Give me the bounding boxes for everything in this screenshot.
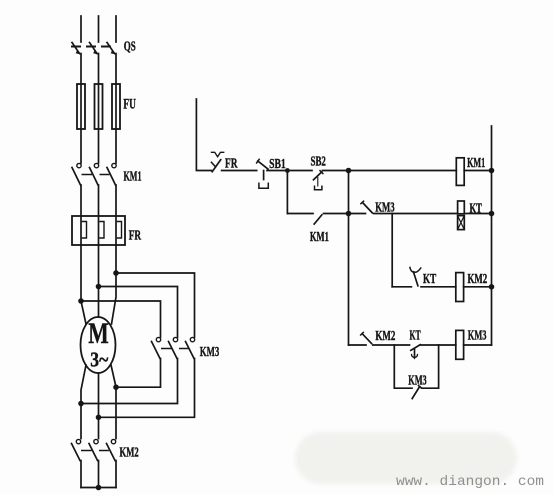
contactor KM2 pole 2	[89, 439, 98, 460]
coil KM3	[456, 330, 464, 359]
KM1 linkage dashed	[82, 174, 108, 176]
node C	[346, 211, 352, 217]
svg-text:QS: QS	[124, 39, 136, 54]
contact KT NC delayed	[411, 345, 420, 360]
fuse FU2	[95, 84, 103, 129]
svg-text:KM3: KM3	[200, 344, 220, 359]
contactor KM2 pole 1	[72, 439, 81, 460]
control supply left wire	[196, 99, 211, 171]
contactor KM3 pole 3	[186, 337, 195, 358]
bus junction	[489, 211, 495, 217]
wire to KM2 aux	[349, 344, 367, 346]
contact KM3 NC parallel	[412, 386, 421, 399]
svg-text:M: M	[88, 317, 109, 350]
wire KM1 coil to bus	[464, 170, 491, 172]
contactor KM2 pole 3	[107, 439, 116, 460]
contact KM1 aux NO	[314, 215, 322, 224]
FR heater 1	[81, 216, 87, 245]
wire KT to KM3 coil	[420, 344, 456, 346]
FR heater 3	[116, 216, 122, 245]
wire phase2 QS to KM1	[98, 54, 100, 164]
node B	[346, 168, 352, 174]
wire node V to KM3 pole2 top	[99, 287, 178, 338]
contact KM2 aux	[361, 332, 372, 343]
wire motor bottom left	[81, 365, 86, 439]
KM3 linkage dashed	[162, 348, 188, 350]
node dot	[113, 384, 119, 390]
switch QS pole 1	[72, 43, 81, 55]
QS linkage dashed	[72, 46, 113, 48]
FR heater 2	[99, 216, 105, 245]
right bus	[491, 126, 493, 345]
switch QS pole 2	[90, 43, 99, 55]
svg-text:www. diangon. com: www. diangon. com	[396, 474, 544, 490]
svg-text:3~: 3~	[90, 348, 108, 372]
branch node B to node C	[348, 171, 350, 214]
wire phase1 FR to node	[80, 245, 82, 301]
star point bus	[81, 487, 116, 489]
wire to KT contact	[392, 286, 411, 288]
svg-text:SB2: SB2	[311, 155, 326, 170]
wire phase3 FR to node	[115, 245, 117, 273]
bus junction	[489, 168, 495, 174]
wire SB2 to KM1 coil	[323, 170, 457, 172]
svg-text:FR: FR	[129, 229, 142, 244]
node dot	[78, 401, 84, 407]
svg-text:KM1: KM1	[467, 155, 485, 170]
node V	[96, 284, 102, 290]
svg-text:FR: FR	[225, 157, 238, 172]
wire phase3 QS to KM1	[115, 54, 117, 164]
contactor KM1 main pole 3	[107, 163, 116, 185]
wire node U to KM3 pole1 top	[81, 301, 161, 337]
wire KM2 aux to node D	[373, 344, 410, 346]
wire node W to motor	[112, 273, 117, 324]
contactor KM3 pole 2	[169, 337, 178, 358]
bus junction	[489, 284, 495, 290]
wire parallel branch up	[422, 345, 439, 388]
wire FR to SB1	[222, 170, 257, 172]
coil KM2	[456, 273, 464, 302]
contactor KM1 main pole 1	[72, 163, 81, 185]
wire SB1 to node A	[267, 170, 312, 172]
wire L3 top	[115, 16, 117, 42]
wires KM2 to star point	[80, 461, 82, 488]
svg-text:FU: FU	[123, 97, 136, 113]
svg-text:KT: KT	[410, 328, 421, 343]
wire phase2 FR to node	[98, 245, 100, 287]
wire node V to motor	[98, 287, 100, 318]
watermark blob	[295, 432, 517, 484]
node dot	[96, 415, 102, 421]
branch down from node A	[286, 171, 288, 214]
svg-text:KM1: KM1	[310, 229, 329, 244]
wire node W to KM3 pole3 top	[116, 273, 195, 337]
coil KT	[458, 201, 465, 230]
wire motor bottom right	[111, 365, 116, 439]
parallel branch KM3 NC	[394, 345, 412, 388]
svg-text:KM2: KM2	[468, 271, 488, 286]
svg-text:KM2: KM2	[120, 445, 139, 460]
contact KM3 NC	[361, 201, 372, 213]
svg-text:KT: KT	[423, 271, 436, 286]
branch down to rung3	[391, 214, 393, 287]
wire node U to motor	[81, 301, 86, 324]
contact KT NO delayed	[410, 267, 421, 285]
button SB1 NC	[257, 159, 269, 188]
fuse FU1	[77, 84, 85, 129]
svg-text:SB1: SB1	[269, 157, 286, 172]
node U	[78, 298, 84, 304]
svg-text:KM3: KM3	[408, 373, 427, 388]
svg-text:KM2: KM2	[375, 328, 395, 343]
switch QS pole 3	[107, 43, 116, 55]
motor M ellipse	[81, 317, 116, 373]
node A	[285, 168, 290, 173]
fuse FU3	[112, 84, 120, 129]
contact FR NC	[211, 152, 223, 171]
wire KM3 pole2 to node U2	[81, 359, 178, 404]
wire KM3 NC to KT coil	[374, 213, 458, 215]
thermal relay FR box	[72, 216, 125, 245]
svg-text:KM1: KM1	[124, 169, 142, 184]
wire motor bottom mid	[98, 373, 100, 439]
wire phase1 QS to KM1	[80, 54, 82, 164]
branch node C down to rung4	[348, 214, 350, 346]
wire KT to KM2 coil	[421, 286, 456, 288]
button SB2 NO	[314, 171, 323, 190]
contactor KM3 pole 1	[152, 337, 161, 358]
wire KT coil to bus	[464, 213, 491, 215]
coil KM1	[456, 158, 464, 186]
wire to KM1 aux	[287, 213, 313, 215]
svg-text:KM3: KM3	[468, 327, 487, 342]
wire KM1 to FR	[80, 185, 82, 216]
KM2 linkage dashed	[82, 450, 108, 452]
star junction	[96, 485, 102, 491]
contactor KM1 main pole 2	[90, 163, 99, 185]
wire KM3 coil to bus corner	[464, 344, 492, 346]
wire KM1 aux to node C	[324, 213, 366, 215]
wire L1 top	[80, 16, 82, 42]
wire KM3 pole1 to node W2	[116, 359, 161, 388]
svg-text:KM3: KM3	[375, 199, 395, 214]
wire KM2 coil to bus	[464, 286, 492, 288]
wire KM3 pole3 to node V2	[99, 359, 195, 418]
node W	[113, 270, 119, 276]
wire L2 top	[98, 16, 100, 42]
